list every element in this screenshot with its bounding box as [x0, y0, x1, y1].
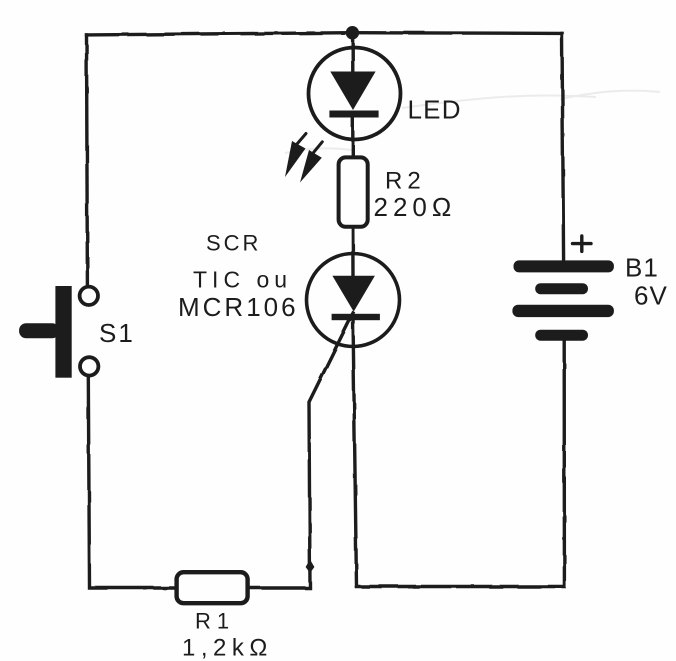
- svg-text:220Ω: 220Ω: [374, 192, 457, 222]
- svg-text:R2: R2: [385, 168, 426, 195]
- svg-text:S1: S1: [99, 318, 135, 348]
- svg-text:1,2kΩ: 1,2kΩ: [182, 635, 273, 661]
- svg-text:SCR: SCR: [206, 231, 261, 256]
- svg-text:R1: R1: [195, 609, 235, 634]
- svg-text:MCR106: MCR106: [178, 292, 299, 322]
- svg-text:LED: LED: [408, 95, 462, 125]
- svg-text:TIC ou: TIC ou: [193, 267, 292, 293]
- svg-text:6V: 6V: [634, 281, 668, 311]
- svg-text:B1: B1: [625, 253, 659, 283]
